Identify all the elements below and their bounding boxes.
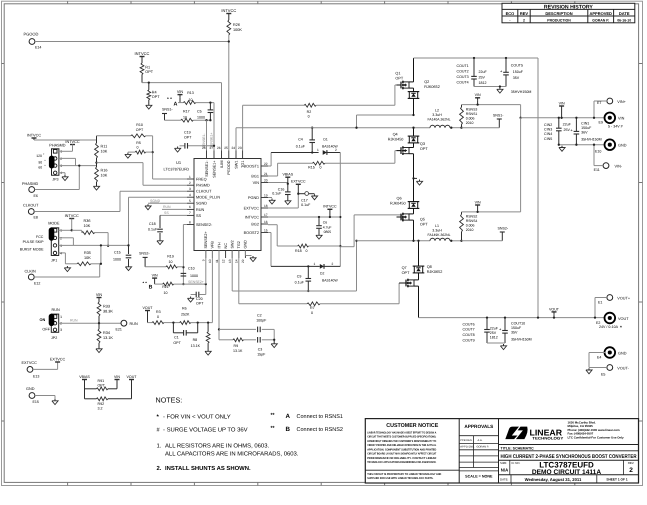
svg-text:DATE:: DATE: (500, 477, 508, 481)
svg-text:PRODUCTION: PRODUCTION (547, 19, 571, 23)
svg-text:15: 15 (264, 228, 268, 232)
svg-text:EXTVCC: EXTVCC (22, 361, 38, 365)
svg-text:06-16-10: 06-16-10 (617, 19, 631, 23)
svg-text:0.1uF: 0.1uF (272, 192, 282, 196)
svg-text:CLKOUT: CLKOUT (23, 203, 39, 207)
svg-text:6: 6 (189, 205, 191, 209)
svg-text:1: 1 (314, 262, 316, 266)
svg-text:35V: 35V (513, 76, 520, 80)
svg-text:R5: R5 (136, 141, 141, 145)
svg-text:0: 0 (308, 115, 310, 119)
svg-text:12: 12 (221, 259, 225, 263)
svg-text:29: 29 (241, 259, 245, 263)
svg-text:10K: 10K (84, 224, 91, 228)
svg-text:C4: C4 (298, 137, 303, 141)
svg-text:COUT9: COUT9 (463, 339, 475, 343)
svg-text:A: A (174, 101, 178, 107)
svg-text:Q6: Q6 (397, 197, 402, 201)
svg-text:C20: C20 (196, 297, 203, 301)
svg-text:FA140A.362NL: FA140A.362NL (428, 117, 451, 121)
svg-text:CIN5: CIN5 (544, 137, 552, 141)
svg-text:18: 18 (264, 204, 268, 208)
svg-text:VOUT: VOUT (549, 307, 560, 311)
svg-text:RJK0450: RJK0450 (388, 138, 404, 142)
svg-text:E14: E14 (35, 46, 41, 50)
svg-text:DESCRIPTION: DESCRIPTION (545, 11, 572, 16)
svg-text:R34: R34 (103, 331, 110, 335)
svg-text:5 - 34V #: 5 - 34V # (608, 125, 623, 129)
svg-text:NC: NC (224, 243, 228, 249)
svg-text:COUT10: COUT10 (511, 321, 525, 325)
svg-text:Wednesday, August 31, 2011: Wednesday, August 31, 2011 (525, 477, 582, 482)
svg-text:C10: C10 (188, 266, 195, 270)
svg-text:R9: R9 (234, 344, 239, 348)
svg-text:24V / 0-10A: 24V / 0-10A (599, 325, 619, 329)
svg-text:CIN3: CIN3 (544, 128, 552, 132)
svg-text:R4: R4 (152, 91, 157, 95)
svg-text:ECO: ECO (506, 11, 515, 16)
svg-text:OPT: OPT (145, 70, 153, 74)
svg-text:APPLICATION. COMPONENT SUBST: APPLICATION. COMPONENT SUBSTITUTION AND … (367, 448, 436, 451)
svg-text:B: B (149, 284, 153, 290)
svg-text:SNS1-: SNS1- (493, 113, 504, 117)
svg-text:VIN: VIN (152, 274, 158, 278)
svg-text:1000: 1000 (197, 115, 205, 119)
svg-text:TECHNOLOGY: TECHNOLOGY (532, 437, 564, 441)
svg-text:REV: REV (520, 11, 529, 16)
svg-text:EXTVCC: EXTVCC (244, 206, 260, 210)
svg-text:SNS2-: SNS2- (139, 252, 150, 256)
svg-text:0: 0 (311, 311, 313, 315)
svg-text:Q4: Q4 (393, 133, 398, 137)
svg-text:CLKIN: CLKIN (25, 269, 36, 273)
svg-text:VIN: VIN (253, 181, 260, 185)
svg-text:LTC3787EUFD: LTC3787EUFD (539, 460, 594, 469)
svg-text:SNS2-: SNS2- (498, 227, 509, 231)
svg-text:JP1: JP1 (51, 259, 57, 263)
svg-text:Connect to RSNS1: Connect to RSNS1 (297, 414, 343, 420)
svg-text:FREQ: FREQ (196, 177, 207, 181)
svg-text:2: 2 (189, 181, 191, 185)
svg-text:0.1uF: 0.1uF (301, 203, 311, 207)
svg-text:22uF: 22uF (563, 123, 572, 127)
svg-text:36V: 36V (581, 130, 588, 134)
svg-text:5: 5 (189, 199, 191, 203)
svg-text:CIN2: CIN2 (544, 123, 552, 127)
svg-text:R35: R35 (84, 251, 91, 255)
svg-text:10: 10 (169, 260, 173, 264)
svg-text:0.006: 0.006 (466, 224, 475, 228)
svg-text:A.A.: A.A. (478, 439, 483, 442)
svg-text:0.1uF: 0.1uF (148, 228, 158, 232)
svg-text:VOUT: VOUT (127, 375, 138, 379)
svg-text:PHSMD: PHSMD (196, 184, 210, 188)
svg-text:2: 2 (332, 262, 334, 266)
svg-text:CIN4: CIN4 (544, 132, 552, 136)
svg-text:R13: R13 (187, 91, 194, 95)
svg-text:R19: R19 (167, 255, 174, 259)
svg-text:ALL RESISTORS ARE IN OHMS, 060: ALL RESISTORS ARE IN OHMS, 0603. (165, 443, 269, 450)
svg-text:E7: E7 (597, 101, 601, 105)
svg-text:- FOR VIN < VOUT ONLY: - FOR VIN < VOUT ONLY (163, 414, 231, 421)
svg-text:TECHNOLOGY APPLICATIONS ENGINE: TECHNOLOGY APPLICATIONS ENGINEERING FOR … (367, 461, 436, 464)
svg-text:14: 14 (235, 259, 239, 263)
svg-text:ALL CAPACITORS ARE IN MICROFAR: ALL CAPACITORS ARE IN MICROFARADS, 0603. (165, 451, 299, 458)
svg-text:13.1K: 13.1K (103, 336, 113, 340)
svg-text:35HVH150M: 35HVH150M (581, 137, 602, 141)
svg-text:INTVCC: INTVCC (221, 8, 236, 13)
svg-text:E12: E12 (34, 282, 40, 286)
svg-text:VIN-: VIN- (615, 165, 623, 169)
svg-text:R8: R8 (193, 338, 198, 342)
svg-text:BAS140W: BAS140W (322, 145, 338, 149)
svg-text:0: 0 (320, 166, 322, 170)
svg-text:MODE_PLLIN: MODE_PLLIN (196, 196, 220, 200)
svg-text:13: 13 (228, 259, 232, 263)
svg-text:SUPPLIED FOR USE WITH LINEAR T: SUPPLIED FOR USE WITH LINEAR TECHNOLOGY … (367, 477, 433, 480)
svg-text:C1: C1 (174, 336, 179, 340)
svg-text:APP'D ENG.: APP'D ENG. (460, 446, 475, 449)
svg-text:RUN: RUN (130, 322, 138, 326)
svg-text:CUSTOMER NOTICE: CUSTOMER NOTICE (386, 423, 438, 429)
svg-text:SNS1-: SNS1- (162, 108, 173, 112)
svg-text:252K: 252K (181, 312, 190, 316)
svg-text:BG1: BG1 (251, 174, 259, 178)
svg-text:COUT6: COUT6 (463, 322, 475, 326)
svg-text:CLKOUT: CLKOUT (196, 190, 212, 194)
svg-text:DATE: DATE (619, 11, 630, 16)
svg-text:C5: C5 (197, 109, 202, 113)
svg-text:TITLE: SCHEMATIC: TITLE: SCHEMATIC (501, 446, 535, 450)
svg-text:SS: SS (196, 214, 202, 218)
svg-text:COUT8: COUT8 (463, 333, 475, 337)
svg-text:C17: C17 (301, 198, 308, 202)
svg-text:R1: R1 (145, 66, 150, 70)
svg-text:EXTVCC: EXTVCC (50, 357, 66, 361)
svg-text:* *: * * (167, 96, 172, 101)
svg-text:INTVCC: INTVCC (65, 214, 79, 218)
svg-text:* *: * * (143, 280, 148, 285)
svg-text:Q5: Q5 (420, 217, 425, 221)
svg-text:FA149K.362NL: FA149K.362NL (428, 233, 451, 237)
svg-text:E13: E13 (33, 375, 39, 379)
svg-text:RUN: RUN (52, 308, 60, 312)
svg-text:OPT: OPT (420, 222, 428, 226)
svg-text:SW2: SW2 (231, 240, 235, 248)
svg-text:CIRCUIT BOARD LAYOUT MAY SIGNI: CIRCUIT BOARD LAYOUT MAY SIGNIFICANTLY A… (367, 453, 436, 456)
svg-text:11: 11 (215, 259, 219, 263)
svg-text:VERIFY PROPER AND RELIABLE OP: VERIFY PROPER AND RELIABLE OPERATION IN … (367, 444, 436, 447)
svg-text:JP2: JP2 (51, 336, 57, 340)
svg-text:E10: E10 (595, 150, 601, 154)
svg-text:E9: E9 (599, 121, 603, 125)
svg-text:OPT: OPT (173, 341, 181, 345)
svg-text:BAS140W: BAS140W (322, 278, 338, 282)
svg-text:*: * (620, 325, 622, 331)
svg-text:E6: E6 (34, 194, 38, 198)
svg-text:Q8: Q8 (427, 265, 432, 269)
svg-text:C2: C2 (257, 313, 262, 317)
svg-text:PERFORMANCE OR RELIABILITY. C: PERFORMANCE OR RELIABILITY. CONTACT LINE… (367, 457, 436, 460)
svg-text:150uF: 150uF (511, 326, 522, 330)
svg-text:VOUT: VOUT (618, 317, 629, 321)
svg-text:4: 4 (189, 193, 191, 197)
svg-text:R3: R3 (156, 310, 161, 314)
svg-text:INSTALL SHUNTS AS SHOWN.: INSTALL SHUNTS AS SHOWN. (165, 465, 251, 472)
svg-text:0: 0 (306, 249, 308, 253)
svg-text:OPT: OPT (98, 383, 106, 387)
svg-text:120: 120 (36, 154, 42, 158)
svg-text:R7: R7 (310, 306, 315, 310)
svg-text:R91: R91 (98, 379, 105, 383)
svg-text:SW1: SW1 (234, 161, 238, 169)
svg-text:R36: R36 (84, 219, 91, 223)
svg-text:RSNS1: RSNS1 (466, 112, 478, 116)
svg-text:D1: D1 (323, 137, 327, 141)
svg-text:SHEET 1 OF 1: SHEET 1 OF 1 (606, 477, 627, 481)
svg-text:RUN: RUN (196, 208, 204, 212)
svg-text:RSNS2: RSNS2 (466, 215, 478, 219)
svg-text:0: 0 (137, 146, 139, 150)
svg-text:7: 7 (189, 211, 191, 215)
svg-text:OFF: OFF (42, 328, 50, 332)
svg-text:COUT2: COUT2 (457, 69, 469, 73)
svg-text:150uF: 150uF (513, 70, 524, 74)
svg-text:COUT7: COUT7 (463, 328, 475, 332)
svg-text:2010: 2010 (466, 121, 474, 125)
svg-text:CIRCUIT THAT MEETS CUSTOMER-SU: CIRCUIT THAT MEETS CUSTOMER-SUPPLIED SPE… (367, 436, 436, 439)
svg-text:2: 2 (629, 467, 633, 474)
svg-text:THIS CIRCUIT IS PROPRIETARY TO: THIS CIRCUIT IS PROPRIETARY TO LINEAR TE… (367, 473, 441, 476)
svg-text:0805: 0805 (324, 230, 332, 234)
svg-text:BOOST1: BOOST1 (244, 164, 259, 168)
svg-text:C6: C6 (323, 221, 327, 225)
svg-text:RUN: RUN (70, 319, 78, 323)
svg-text:INTVCC: INTVCC (135, 51, 150, 56)
svg-text:1000: 1000 (113, 258, 121, 262)
svg-text:23: 23 (238, 146, 242, 150)
svg-text:24: 24 (231, 146, 235, 150)
svg-text:ON: ON (39, 318, 45, 322)
svg-text:HIGH CURRENT 2-PHASE SYNCHRONO: HIGH CURRENT 2-PHASE SYNCHRONOUS BOOST C… (501, 454, 637, 460)
svg-text:VIN: VIN (177, 90, 184, 94)
svg-text:BURST MODE: BURST MODE (20, 247, 44, 251)
svg-text:OPT: OPT (136, 128, 144, 132)
svg-text:OPT: OPT (196, 302, 204, 306)
svg-text:2010: 2010 (466, 228, 474, 232)
svg-text:U1: U1 (176, 160, 182, 165)
svg-text:22uF: 22uF (490, 326, 499, 330)
svg-text:INTVCC: INTVCC (27, 133, 41, 137)
svg-text:19: 19 (264, 193, 268, 197)
svg-text:90: 90 (38, 161, 42, 165)
svg-text:8: 8 (189, 220, 191, 224)
svg-text:VIN: VIN (114, 375, 120, 379)
svg-text:10K: 10K (101, 150, 108, 154)
svg-text:3: 3 (60, 328, 62, 332)
svg-text:1812: 1812 (479, 81, 487, 85)
svg-text:B: B (286, 426, 291, 433)
svg-text:L1: L1 (435, 224, 439, 228)
svg-text:LINEAR TECHNOLOGY HAS MADE A B: LINEAR TECHNOLOGY HAS MADE A BEST EFFORT… (367, 431, 436, 434)
svg-text:LTC Confidential-For Customer: LTC Confidential-For Customer Use Only (568, 435, 625, 439)
svg-text:SENSE2-: SENSE2- (196, 223, 213, 227)
svg-text:IC NO.: IC NO. (512, 461, 521, 465)
svg-text:GORAN P.: GORAN P. (477, 446, 490, 449)
svg-text:R33: R33 (103, 305, 110, 309)
svg-text:INTVCC: INTVCC (245, 215, 259, 219)
svg-text:GND: GND (26, 387, 35, 391)
svg-text:Q3: Q3 (420, 142, 425, 146)
svg-text:ILIM: ILIM (220, 161, 224, 168)
svg-text:10: 10 (164, 291, 168, 295)
svg-text:C19: C19 (184, 131, 191, 135)
svg-text:BG2: BG2 (251, 222, 259, 226)
svg-text:E1: E1 (598, 301, 602, 305)
svg-text:15pF: 15pF (257, 353, 266, 357)
svg-text:VBIAS: VBIAS (283, 173, 294, 177)
svg-text:ITH: ITH (217, 242, 221, 248)
svg-text:10: 10 (208, 259, 212, 263)
svg-text:MODE: MODE (48, 222, 60, 226)
svg-text:VIN: VIN (559, 101, 565, 105)
svg-text:A: A (286, 413, 291, 420)
svg-text:GND: GND (618, 352, 627, 356)
svg-text:VIN: VIN (96, 293, 103, 297)
svg-text:SIZE: SIZE (500, 461, 506, 465)
svg-text:RSNS3: RSNS3 (466, 107, 478, 111)
svg-text:COUT5: COUT5 (511, 64, 523, 68)
svg-text:REVISION HISTORY: REVISION HISTORY (544, 4, 594, 10)
svg-text:CIN1: CIN1 (581, 121, 589, 125)
svg-text:RJK0450: RJK0450 (390, 202, 406, 206)
svg-text:1: 1 (317, 148, 319, 152)
svg-text:REV.: REV. (628, 461, 635, 465)
svg-text:Q1: Q1 (395, 71, 400, 75)
svg-text:VBIAS: VBIAS (79, 375, 90, 379)
svg-text:VOUT+: VOUT+ (617, 297, 631, 301)
svg-text:SENSE2+: SENSE2+ (188, 280, 204, 284)
svg-text:SS: SS (164, 211, 169, 215)
svg-text:10K: 10K (84, 256, 91, 260)
svg-text:PCB DES.: PCB DES. (460, 439, 472, 442)
svg-text:SENSE2+: SENSE2+ (204, 231, 208, 249)
svg-text:13.1K: 13.1K (233, 349, 243, 353)
svg-text:R16: R16 (101, 169, 108, 173)
svg-text:100pF: 100pF (256, 319, 267, 323)
svg-text:SCALE = NONE: SCALE = NONE (465, 474, 493, 478)
svg-text:1: 1 (60, 315, 62, 319)
svg-text:SENSE1+: SENSE1+ (212, 160, 216, 178)
svg-text:HOWEVER,IT REMAINS THE CUSTOM: HOWEVER,IT REMAINS THE CUSTOMER'S RESPON… (367, 440, 436, 443)
svg-text:R17: R17 (183, 109, 190, 113)
svg-text:35HVH150M: 35HVH150M (511, 337, 532, 341)
svg-text:1812: 1812 (490, 335, 498, 339)
svg-text:APPROVALS: APPROVALS (464, 424, 493, 429)
svg-text:1000: 1000 (190, 274, 198, 278)
svg-text:RSNS4: RSNS4 (466, 219, 478, 223)
svg-text:R18: R18 (295, 249, 302, 253)
svg-text:3.3uH: 3.3uH (432, 113, 442, 117)
svg-text:4.7uF: 4.7uF (323, 225, 332, 229)
svg-text:Q2: Q2 (424, 80, 429, 84)
svg-text:PGND: PGND (248, 196, 259, 200)
svg-text:BOOST2: BOOST2 (244, 231, 259, 235)
svg-text:VIN+: VIN+ (617, 100, 626, 104)
svg-text:C9: C9 (297, 274, 302, 278)
svg-text:22uF: 22uF (479, 70, 488, 74)
svg-text:RUN: RUN (163, 205, 171, 209)
svg-text:RJK0652: RJK0652 (424, 85, 440, 89)
svg-text:R15: R15 (308, 166, 315, 170)
svg-text:PGOOD: PGOOD (227, 160, 231, 174)
svg-text:R26: R26 (233, 23, 240, 27)
svg-text:0.006: 0.006 (466, 116, 475, 120)
svg-text:C18: C18 (149, 222, 156, 226)
svg-text:COUT1: COUT1 (457, 64, 469, 68)
svg-text:E21: E21 (116, 328, 122, 332)
svg-text:VIN: VIN (618, 117, 625, 121)
svg-text:R6: R6 (182, 307, 187, 311)
svg-text:150uF: 150uF (581, 126, 592, 130)
svg-text:COUT4: COUT4 (457, 80, 469, 84)
svg-text:16: 16 (264, 220, 268, 224)
svg-text:2.: 2. (157, 465, 162, 472)
svg-text:NOTES:: NOTES: (156, 396, 183, 405)
svg-text:COUT3: COUT3 (457, 75, 469, 79)
svg-text:OPT: OPT (184, 136, 192, 140)
svg-text:E4: E4 (597, 356, 601, 360)
svg-text:100K: 100K (233, 28, 242, 32)
svg-text:0: 0 (157, 315, 159, 319)
svg-text:OPT: OPT (395, 76, 403, 80)
svg-text:25V: 25V (479, 75, 486, 79)
svg-text:1: 1 (189, 175, 191, 179)
svg-text:1.: 1. (157, 443, 162, 450)
svg-text:GND: GND (618, 144, 627, 148)
svg-text:N/A: N/A (501, 468, 508, 473)
svg-text:VIN: VIN (475, 200, 481, 204)
svg-text:35HVH150M: 35HVH150M (511, 90, 532, 94)
svg-text:LTC3787EUFD: LTC3787EUFD (164, 168, 190, 172)
svg-text:OPT: OPT (420, 147, 428, 151)
svg-text:PHASMD: PHASMD (49, 143, 66, 147)
svg-text:E15: E15 (33, 400, 39, 404)
svg-text:EXTVCC: EXTVCC (291, 180, 306, 184)
svg-text:D2: D2 (320, 272, 324, 276)
svg-text:FCC: FCC (36, 235, 44, 239)
svg-text:R10: R10 (136, 123, 143, 127)
svg-text:GND: GND (244, 240, 248, 249)
svg-text:PHASMD: PHASMD (22, 182, 39, 186)
svg-text:VOUT: VOUT (143, 306, 154, 310)
svg-text:R92: R92 (98, 402, 105, 406)
svg-text:22: 22 (264, 162, 268, 166)
svg-text:35V: 35V (511, 330, 518, 334)
svg-text:SENSE1-: SENSE1- (205, 160, 209, 177)
svg-text:L2: L2 (435, 108, 439, 112)
svg-text:3.3uH: 3.3uH (432, 228, 442, 232)
svg-text:R2: R2 (307, 110, 312, 114)
svg-text:OPT: OPT (152, 95, 160, 99)
svg-text:3: 3 (189, 187, 191, 191)
svg-text:9: 9 (202, 259, 206, 261)
svg-text:E8: E8 (34, 216, 38, 220)
svg-text:OPT: OPT (402, 271, 410, 275)
svg-text:- SURGE VOLTAGE UP TO 36V: - SURGE VOLTAGE UP TO 36V (163, 427, 248, 434)
svg-text:60: 60 (38, 165, 42, 169)
svg-text:C15: C15 (114, 251, 121, 255)
